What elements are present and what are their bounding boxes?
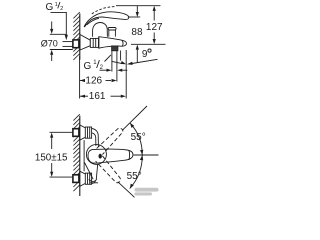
svg-text:127: 127 [146, 22, 163, 33]
lower arc [130, 155, 143, 189]
lower angle diagonal [118, 182, 135, 198]
svg-text:G: G [46, 2, 54, 13]
G 1/2 top leader [51, 12, 68, 40]
solid lever front view [88, 149, 133, 163]
wall bottom view hatched band [73, 114, 79, 196]
svg-text:88: 88 [131, 27, 143, 38]
dim 126 [80, 75, 117, 86]
dim 161 [80, 50, 126, 102]
top union bottom view [73, 125, 99, 147]
supply pipe top view [63, 42, 73, 47]
dim 127 [92, 6, 166, 45]
body union nut top view [90, 38, 98, 47]
GROHE watermark [135, 188, 159, 196]
aerator / shower outlet box [112, 46, 118, 51]
svg-text:1: 1 [55, 2, 58, 8]
svg-text:55°: 55° [131, 132, 146, 143]
svg-text:55°: 55° [127, 171, 142, 182]
cartridge dome [93, 22, 108, 36]
svg-text:161: 161 [89, 91, 106, 102]
9 degree construct [112, 49, 158, 65]
dashed lower lever position [96, 156, 121, 183]
upper angle diagonal [122, 106, 147, 130]
upper arc [130, 123, 142, 155]
dashed upper lever position [97, 128, 123, 154]
svg-text:2: 2 [60, 6, 63, 12]
faucet body top view [99, 37, 127, 49]
svg-text:126: 126 [85, 75, 102, 86]
bottom union bottom view [73, 171, 96, 186]
dim 150 +-15 [35, 132, 73, 177]
svg-text:G: G [84, 61, 92, 72]
union connector plate vertical line [83, 140, 85, 171]
angle reference horizontal line [134, 154, 159, 156]
body circle front view [86, 144, 106, 164]
temperature dot [99, 154, 102, 159]
spout tip inner arc [122, 40, 123, 46]
escutcheon cone top view [80, 35, 90, 51]
dim 88 [128, 6, 143, 63]
diverter knob on body top [108, 28, 116, 37]
svg-text:9: 9 [142, 49, 148, 60]
union nut square at wall top view [73, 40, 79, 48]
lever tip inner line [129, 150, 130, 160]
spout front view [85, 163, 99, 183]
svg-text:150±15: 150±15 [35, 152, 68, 163]
lever handle top view [84, 12, 129, 27]
wall surface extension line [79, 56, 81, 99]
wall top view hatched band [73, 12, 79, 60]
G 1/2 top label [46, 2, 64, 13]
dia 70 dimension [41, 22, 73, 62]
outlet housing step line [120, 51, 122, 61]
body joint facet line [98, 37, 100, 48]
lever inner line [87, 18, 99, 25]
G 1/2 bottom label [84, 55, 112, 72]
svg-text:Ø70: Ø70 [41, 38, 58, 48]
G 1/2 bottom dim arrows [100, 51, 128, 82]
